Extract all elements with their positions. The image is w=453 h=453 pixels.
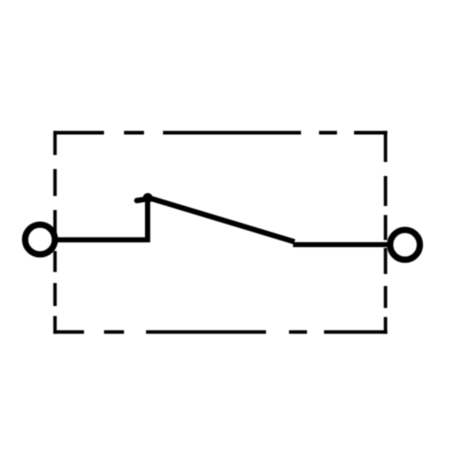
terminal circle right [390, 230, 420, 260]
enclosure dash-dot boundary, top edge [54, 131, 388, 135]
switch lever tail stub [137, 199, 147, 201]
terminal circle left [25, 225, 55, 255]
wire pole riser [145, 198, 150, 243]
pivot dot junction [143, 193, 153, 203]
wire from lever contact to right terminal [293, 242, 393, 247]
switch lever (moving contact) [148, 197, 295, 241]
enclosure dash-dot boundary, left edge [53, 131, 56, 334]
enclosure dash-dot boundary, right edge [384, 131, 387, 334]
wire from left terminal to switch pole [52, 237, 150, 242]
enclosure dash-dot boundary, bottom edge [54, 330, 388, 334]
